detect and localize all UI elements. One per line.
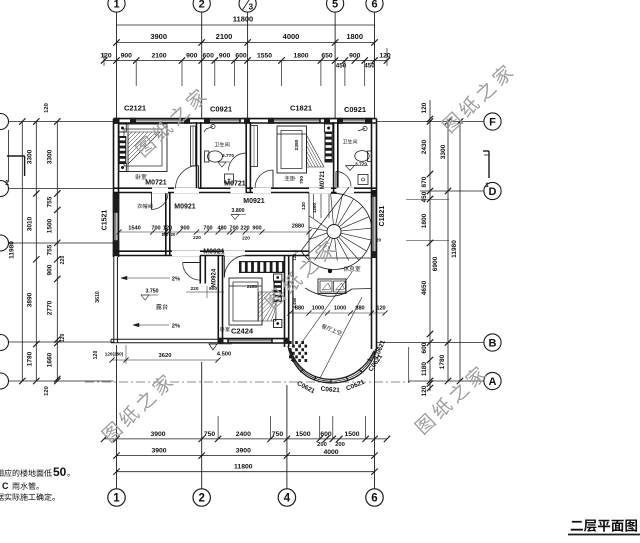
svg-text:4: 4: [284, 493, 291, 505]
svg-text:11800: 11800: [234, 464, 253, 471]
svg-text:5: 5: [332, 0, 338, 11]
svg-text:100: 100: [162, 232, 170, 237]
svg-text:120: 120: [301, 202, 306, 210]
svg-text:M0721: M0721: [145, 180, 167, 187]
svg-text:120: 120: [60, 334, 66, 343]
svg-text:1: 1: [5, 180, 9, 187]
svg-text:2%: 2%: [172, 324, 180, 330]
svg-text:2: 2: [199, 0, 205, 11]
svg-text:50: 50: [53, 465, 67, 479]
svg-text:1800: 1800: [293, 53, 308, 60]
svg-text:11980: 11980: [9, 241, 16, 259]
svg-text:4.500: 4.500: [217, 352, 232, 358]
svg-text:2: 2: [198, 493, 204, 505]
svg-text:1780: 1780: [439, 354, 446, 369]
svg-text:450: 450: [421, 191, 428, 202]
svg-text:3: 3: [249, 3, 254, 12]
svg-text:3900: 3900: [150, 32, 167, 41]
svg-text:755: 755: [47, 244, 54, 255]
svg-text:450: 450: [364, 63, 375, 70]
svg-text:750: 750: [272, 431, 284, 438]
svg-text:1500: 1500: [295, 431, 310, 438]
svg-text:C2121: C2121: [124, 104, 146, 113]
svg-text:700: 700: [229, 226, 238, 232]
svg-text:4.450: 4.450: [292, 297, 297, 308]
svg-text:2770: 2770: [47, 300, 54, 315]
svg-text:600: 600: [203, 53, 215, 60]
svg-text:1000: 1000: [312, 306, 324, 312]
svg-text:480: 480: [217, 226, 226, 232]
svg-text:4000: 4000: [283, 32, 300, 41]
svg-text:1500: 1500: [47, 218, 54, 233]
svg-text:1260: 1260: [312, 202, 317, 213]
svg-text:120: 120: [163, 226, 172, 232]
svg-text:220: 220: [193, 235, 201, 240]
svg-text:3300: 3300: [27, 149, 34, 164]
svg-text:3.800: 3.800: [232, 208, 245, 214]
svg-text:1800: 1800: [421, 213, 428, 228]
svg-text:120: 120: [93, 351, 99, 360]
svg-text:3.770: 3.770: [222, 153, 234, 159]
svg-text:700: 700: [203, 226, 212, 232]
svg-text:1180: 1180: [421, 362, 428, 376]
svg-text:120: 120: [376, 306, 385, 312]
svg-text:3300: 3300: [47, 149, 54, 164]
svg-text:2430: 2430: [421, 139, 428, 154]
svg-text:120: 120: [292, 253, 297, 261]
svg-text:20: 20: [376, 238, 382, 243]
svg-text:2880: 2880: [292, 224, 304, 230]
svg-text:120: 120: [421, 102, 428, 113]
svg-text:600: 600: [235, 53, 247, 60]
svg-text:C2424: C2424: [231, 327, 254, 336]
svg-text:220: 220: [60, 256, 66, 265]
svg-text:3300: 3300: [440, 144, 447, 159]
svg-text:1500: 1500: [344, 431, 359, 438]
svg-text:220: 220: [242, 236, 250, 241]
svg-text:M0921: M0921: [174, 204, 196, 211]
svg-text:220: 220: [190, 286, 198, 292]
svg-text:3900: 3900: [151, 447, 166, 454]
svg-text:1: 1: [113, 0, 119, 11]
svg-text:120: 120: [379, 53, 391, 60]
svg-text:11800: 11800: [233, 15, 253, 24]
svg-text:M0921: M0921: [243, 198, 265, 205]
svg-text:900: 900: [47, 264, 54, 275]
svg-text:+: +: [228, 177, 231, 183]
svg-text:1660: 1660: [47, 352, 54, 367]
svg-text:D: D: [489, 186, 497, 198]
svg-text:M0721: M0721: [320, 170, 326, 189]
svg-text:700: 700: [299, 176, 305, 184]
svg-text:6: 6: [371, 493, 377, 505]
svg-text:870: 870: [421, 176, 428, 187]
svg-text:900: 900: [252, 226, 261, 232]
svg-text:20: 20: [171, 232, 176, 237]
svg-text:120: 120: [44, 103, 50, 113]
svg-text:C: C: [2, 481, 9, 491]
svg-text:4650: 4650: [421, 280, 428, 295]
svg-text:900: 900: [219, 53, 231, 60]
svg-text:2380: 2380: [294, 139, 300, 150]
svg-text:900: 900: [180, 226, 189, 232]
svg-text:3010: 3010: [27, 216, 34, 231]
svg-text:3.770: 3.770: [355, 162, 367, 168]
svg-text:2100: 2100: [151, 53, 166, 60]
svg-text:2100: 2100: [216, 32, 233, 41]
svg-text:2%: 2%: [172, 277, 180, 283]
svg-text:3.750: 3.750: [146, 289, 159, 295]
svg-text:755: 755: [47, 196, 54, 207]
svg-text:F: F: [489, 117, 496, 129]
svg-text:900: 900: [349, 53, 361, 60]
svg-text:2400: 2400: [236, 431, 251, 438]
svg-text:3900: 3900: [150, 431, 165, 438]
svg-text:880: 880: [355, 306, 364, 312]
svg-text:750: 750: [204, 431, 216, 438]
svg-text:120(280): 120(280): [105, 352, 124, 357]
svg-text:3610: 3610: [95, 291, 101, 303]
svg-text:3900: 3900: [236, 447, 251, 454]
svg-text:1800: 1800: [346, 32, 363, 41]
svg-text:C0921: C0921: [210, 105, 232, 114]
svg-text:A: A: [489, 376, 497, 388]
svg-text:700: 700: [151, 226, 160, 232]
svg-text:120: 120: [100, 53, 112, 60]
svg-text:M0924: M0924: [212, 268, 218, 287]
svg-text:M0921: M0921: [203, 249, 225, 256]
svg-text:2280: 2280: [247, 284, 258, 289]
svg-text:B: B: [489, 338, 497, 350]
svg-text:6: 6: [371, 0, 377, 11]
svg-text:C0921: C0921: [344, 105, 366, 114]
svg-text:200: 200: [335, 442, 345, 448]
svg-text:11980: 11980: [451, 240, 458, 258]
svg-text:3890: 3890: [27, 292, 34, 307]
svg-text:120: 120: [44, 386, 50, 396]
svg-text:600: 600: [320, 431, 332, 438]
svg-text:C1521: C1521: [102, 210, 109, 231]
svg-text:3620: 3620: [159, 353, 172, 359]
svg-text:1: 1: [113, 493, 120, 505]
svg-text:6900: 6900: [432, 256, 439, 271]
svg-text:650: 650: [321, 53, 333, 60]
svg-text:900: 900: [209, 286, 217, 292]
svg-text:1550: 1550: [257, 53, 272, 60]
svg-text:200: 200: [317, 442, 327, 448]
svg-text:220: 220: [240, 226, 249, 232]
svg-text:600: 600: [421, 342, 428, 353]
svg-text:1540: 1540: [128, 226, 140, 232]
svg-text:4000: 4000: [323, 449, 338, 456]
svg-text:1000: 1000: [334, 306, 346, 312]
svg-text:C1821: C1821: [290, 104, 312, 113]
svg-text:900: 900: [186, 53, 198, 60]
svg-text:1780: 1780: [27, 351, 34, 366]
svg-text:900: 900: [121, 53, 133, 60]
svg-text:C1821: C1821: [379, 206, 386, 227]
